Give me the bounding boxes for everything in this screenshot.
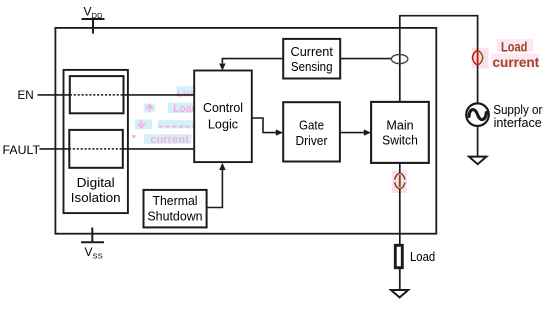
svg-text:Control: Control xyxy=(203,100,243,115)
svg-text:Gate: Gate xyxy=(299,118,324,133)
svg-text:Sensing: Sensing xyxy=(291,59,333,74)
svg-text:Digital: Digital xyxy=(77,175,115,190)
svg-text:Thermal: Thermal xyxy=(152,193,197,208)
svg-text:Main: Main xyxy=(386,117,413,132)
svg-text:current: current xyxy=(150,134,189,146)
svg-text:Current: Current xyxy=(291,44,334,59)
svg-text:Load: Load xyxy=(501,38,527,54)
svg-text:EN: EN xyxy=(18,88,34,102)
svg-text:Shutdown: Shutdown xyxy=(147,209,202,224)
svg-text:current: current xyxy=(493,54,540,70)
svg-text:Switch: Switch xyxy=(382,132,418,147)
svg-text:interface: interface xyxy=(494,115,542,130)
svg-text:Isolation: Isolation xyxy=(71,190,121,205)
svg-text:FAULT: FAULT xyxy=(3,143,41,157)
svg-text:Driver: Driver xyxy=(296,133,328,148)
svg-text:Logic: Logic xyxy=(208,116,239,131)
svg-text:Load: Load xyxy=(410,250,435,264)
